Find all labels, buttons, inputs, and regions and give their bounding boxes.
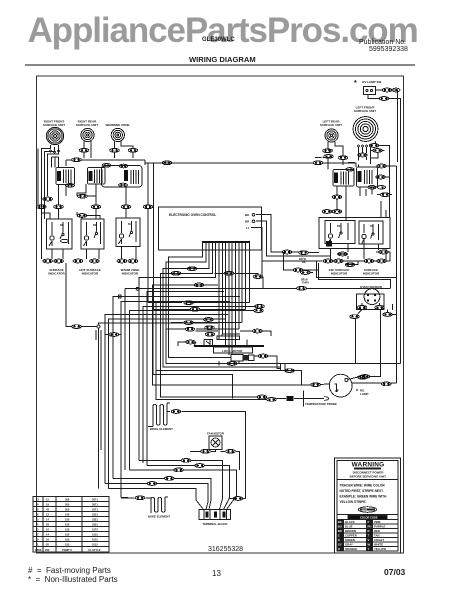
connector bbox=[43, 197, 53, 201]
svg-text:200: 200 bbox=[65, 503, 70, 507]
terminal block label bbox=[202, 522, 227, 526]
svg-text:BK: BK bbox=[338, 520, 342, 524]
svg-text:29: 29 bbox=[46, 523, 49, 527]
warning box bbox=[335, 458, 401, 553]
connector bbox=[311, 383, 321, 387]
diagram frame bbox=[37, 76, 404, 553]
left rear surface unit label bbox=[320, 120, 342, 128]
connector bbox=[381, 382, 391, 386]
warning title bbox=[352, 462, 385, 469]
svg-text:BK: BK bbox=[337, 225, 341, 228]
wire left bus L bends bbox=[99, 285, 311, 498]
connector bbox=[358, 375, 368, 379]
oven sensor enclosure bbox=[356, 294, 384, 310]
wire sensor horizontal bbox=[356, 101, 401, 364]
connector bbox=[109, 333, 119, 337]
svg-text:105: 105 bbox=[65, 538, 70, 542]
left rear surface switch bbox=[333, 168, 354, 186]
wire into indicator boxes bbox=[41, 209, 148, 219]
svg-text:BR: BR bbox=[245, 220, 250, 224]
connector bbox=[376, 175, 386, 179]
connector bbox=[332, 195, 342, 199]
connector bbox=[377, 259, 387, 263]
connector bbox=[143, 205, 153, 209]
svg-text:*: * bbox=[354, 80, 357, 87]
connector bbox=[360, 375, 370, 379]
svg-text:TERMINAL BLOCK: TERMINAL BLOCK bbox=[202, 522, 227, 526]
wire right indicator drops bbox=[262, 201, 397, 278]
connector bbox=[375, 306, 385, 310]
connector bbox=[357, 306, 367, 310]
svg-text:105: 105 bbox=[65, 543, 70, 547]
left front surface unit bbox=[353, 117, 378, 142]
svg-text:15: 15 bbox=[46, 498, 49, 502]
connector bbox=[147, 482, 157, 486]
connector bbox=[117, 259, 127, 263]
connector bbox=[322, 210, 332, 214]
svg-text:PURPLE: PURPLE bbox=[374, 525, 385, 529]
wire lamp sw lower bbox=[368, 95, 401, 161]
svg-text:16: 16 bbox=[46, 528, 49, 532]
svg-text:3231: 3231 bbox=[92, 513, 98, 517]
svg-text:BEFORE SERVICING UNIT.: BEFORE SERVICING UNIT. bbox=[350, 475, 387, 479]
svg-text:5: 5 bbox=[37, 518, 39, 522]
color code table bbox=[337, 515, 398, 552]
lock motor switch arm bbox=[204, 340, 247, 346]
svg-text:INDICATOR: INDICATOR bbox=[363, 272, 380, 276]
surface indicator label right bbox=[363, 268, 380, 276]
tracer wire example symbol bbox=[359, 507, 377, 513]
svg-text:150: 150 bbox=[65, 513, 70, 517]
connector bbox=[382, 88, 400, 92]
svg-text:WIRE: WIRE bbox=[35, 548, 42, 552]
connector bbox=[78, 194, 88, 198]
svg-text:1015: 1015 bbox=[92, 533, 98, 537]
svg-text:RED: RED bbox=[374, 529, 380, 533]
svg-text:BK: BK bbox=[302, 260, 306, 264]
br w thru label bbox=[301, 279, 309, 285]
wire upper mid horizontals bbox=[171, 257, 258, 276]
connector bbox=[297, 286, 307, 290]
svg-text:R: R bbox=[368, 529, 370, 533]
svg-text:12: 12 bbox=[36, 498, 39, 502]
svg-text:COPPER: COPPER bbox=[345, 534, 357, 538]
wire fan motor bbox=[190, 450, 239, 470]
oven lamp switch bbox=[364, 87, 376, 95]
connector bbox=[324, 155, 334, 159]
connector bbox=[121, 205, 131, 209]
connector bbox=[201, 449, 211, 453]
svg-text:GREEN: GREEN bbox=[345, 538, 355, 542]
connector bbox=[184, 301, 194, 305]
connector bbox=[204, 318, 214, 322]
wire color table text bbox=[35, 498, 101, 553]
svg-text:19: 19 bbox=[46, 503, 49, 507]
connector bbox=[162, 161, 172, 165]
svg-text:OV LAMP SW: OV LAMP SW bbox=[362, 80, 381, 84]
connector bbox=[195, 464, 205, 468]
connector bbox=[128, 259, 138, 263]
connector bbox=[379, 97, 389, 101]
title bbox=[189, 55, 256, 64]
svg-text:LI: LI bbox=[246, 226, 249, 230]
fan motor bbox=[209, 436, 222, 450]
svg-text:20: 20 bbox=[46, 543, 49, 547]
svg-text:PU: PU bbox=[368, 525, 372, 529]
svg-text:PINK: PINK bbox=[374, 520, 381, 524]
svg-text:YELLOW: YELLOW bbox=[374, 547, 386, 551]
surface switch 1 (right front) bbox=[56, 168, 75, 188]
junction bbox=[118, 295, 121, 298]
wire EOC right side BK bbox=[256, 215, 331, 282]
svg-text:BK: BK bbox=[60, 224, 64, 227]
connector bbox=[285, 369, 295, 373]
model no bbox=[202, 37, 235, 43]
svg-text:4: 4 bbox=[37, 523, 39, 527]
svg-text:6: 6 bbox=[37, 513, 39, 517]
svg-text:TAN: TAN bbox=[374, 534, 380, 538]
connector bbox=[255, 304, 265, 308]
warm zone indicator box bbox=[116, 218, 140, 247]
right surface indicator box bbox=[359, 221, 383, 244]
svg-text:1015: 1015 bbox=[92, 543, 98, 547]
svg-text:BLACK: BLACK bbox=[345, 520, 355, 524]
connector bbox=[252, 329, 262, 333]
warming zone element bbox=[111, 128, 124, 141]
lock motor bar bbox=[194, 345, 264, 347]
terminal block bbox=[199, 510, 231, 520]
connector bbox=[380, 193, 390, 197]
wire middle verticals to block bbox=[219, 330, 229, 365]
wire switch drops bbox=[59, 160, 154, 309]
wire LR unit drops bbox=[328, 142, 343, 170]
connector bbox=[164, 477, 174, 481]
svg-text:YELLOW STRIPE.: YELLOW STRIPE. bbox=[340, 500, 367, 504]
warning paragraph bbox=[340, 484, 388, 505]
oven lamp label bbox=[356, 389, 369, 397]
junction square bbox=[147, 205, 150, 208]
wire lamp sw to connector bbox=[376, 90, 398, 162]
svg-text:V: V bbox=[368, 538, 370, 542]
svg-text:43: 43 bbox=[46, 508, 49, 512]
connector bbox=[90, 259, 100, 263]
svg-text:LAMP: LAMP bbox=[360, 392, 369, 396]
svg-text:BLUE: BLUE bbox=[345, 525, 353, 529]
svg-text:BAKE ELEMENT: BAKE ELEMENT bbox=[148, 515, 170, 519]
wire bus to right boxes bbox=[315, 150, 355, 163]
svg-text:14: 14 bbox=[46, 518, 49, 522]
surface unit right front bbox=[46, 127, 63, 144]
broil element bbox=[153, 403, 167, 427]
warning subtitle bbox=[350, 471, 387, 479]
wire right edge taps bbox=[386, 166, 397, 177]
connector bbox=[73, 259, 83, 263]
wire long 288 bbox=[125, 282, 391, 470]
wire color table bbox=[33, 497, 109, 553]
footer left bbox=[28, 566, 111, 575]
svg-text:NOTED FIRST, STRIPE NEXT.: NOTED FIRST, STRIPE NEXT. bbox=[340, 489, 384, 493]
connector bbox=[377, 164, 387, 168]
connector bbox=[313, 161, 323, 165]
connector bbox=[79, 148, 89, 152]
connector bbox=[253, 275, 263, 279]
connector bbox=[171, 271, 181, 275]
fan motor label bbox=[207, 432, 224, 436]
svg-text:3071: 3071 bbox=[92, 503, 98, 507]
svg-text:SURFACE UNIT: SURFACE UNIT bbox=[320, 123, 342, 127]
svg-text:ORANGE: ORANGE bbox=[345, 547, 357, 551]
svg-text:BROIL ELEMENT: BROIL ELEMENT bbox=[150, 427, 173, 431]
warming zone label bbox=[106, 123, 130, 127]
connector bbox=[54, 259, 64, 263]
warning underline bbox=[354, 468, 381, 469]
surface switch 2 (right rear) bbox=[88, 168, 106, 185]
svg-text:EXAMPLE: GREEN WIRE WITH: EXAMPLE: GREEN WIRE WITH bbox=[340, 495, 388, 499]
connector bbox=[338, 156, 348, 160]
connector bbox=[77, 214, 87, 218]
connector bbox=[332, 210, 342, 214]
connector bbox=[185, 327, 195, 331]
broil element label bbox=[150, 427, 173, 431]
svg-text:UL STYLE: UL STYLE bbox=[88, 548, 101, 552]
connector bbox=[72, 158, 82, 162]
svg-text:G: G bbox=[338, 538, 340, 542]
svg-text:3071: 3071 bbox=[92, 498, 98, 502]
connector bbox=[254, 309, 264, 313]
surface indicator label bbox=[48, 268, 65, 276]
wire LF unit drops bbox=[359, 141, 390, 218]
connector bbox=[358, 153, 368, 157]
connector bbox=[227, 362, 237, 366]
svg-text:*: * bbox=[356, 389, 359, 395]
connector bbox=[205, 332, 215, 336]
svg-text:200: 200 bbox=[65, 508, 70, 512]
connector bbox=[181, 459, 191, 463]
svg-text:ELECTRONIC OVEN CONTROL: ELECTRONIC OVEN CONTROL bbox=[169, 213, 216, 217]
connector bbox=[190, 307, 200, 311]
connector bbox=[54, 205, 64, 209]
EOC terminals BK BR LI bbox=[245, 213, 250, 230]
surface indicator box bbox=[47, 219, 73, 249]
svg-text:150: 150 bbox=[65, 518, 70, 522]
svg-text:INDICATOR: INDICATOR bbox=[82, 272, 99, 276]
svg-text:T: T bbox=[368, 534, 370, 538]
junction bbox=[136, 287, 139, 290]
svg-text:P: P bbox=[368, 520, 370, 524]
connector bbox=[301, 271, 311, 275]
left front surface switch bbox=[357, 167, 386, 189]
wire indicator box drops bbox=[52, 247, 136, 260]
svg-text:300: 300 bbox=[65, 498, 70, 502]
connector bbox=[334, 259, 344, 263]
oven light bbox=[329, 374, 352, 397]
svg-text:1: 1 bbox=[37, 543, 39, 547]
svg-text:THRU: THRU bbox=[302, 281, 309, 284]
svg-text:BROWN: BROWN bbox=[345, 529, 356, 533]
connector bbox=[373, 149, 383, 153]
connector bbox=[205, 326, 215, 330]
connector bbox=[364, 259, 374, 263]
svg-text:SURFACE UNIT: SURFACE UNIT bbox=[354, 109, 376, 113]
connector row above indicator boxes bbox=[37, 205, 47, 209]
svg-text:9: 9 bbox=[37, 503, 39, 507]
wire parallel return bbox=[319, 263, 391, 288]
bk label small bbox=[299, 257, 306, 264]
svg-text:8: 8 bbox=[37, 508, 39, 512]
connector bbox=[233, 497, 243, 501]
connector bbox=[282, 250, 292, 254]
connector bbox=[128, 148, 138, 152]
connector bbox=[91, 205, 101, 209]
wire bus mid drops bbox=[105, 250, 250, 356]
surface unit right rear bbox=[81, 128, 94, 141]
connector bbox=[293, 268, 303, 272]
svg-text:3173: 3173 bbox=[92, 528, 98, 532]
junction node bbox=[97, 325, 100, 328]
svg-text:BK: BK bbox=[93, 224, 97, 227]
svg-text:BK: BK bbox=[245, 213, 250, 217]
oven sensor bbox=[364, 289, 380, 305]
svg-text:WARMING ZONE: WARMING ZONE bbox=[106, 123, 130, 127]
oven lamp switch label bbox=[354, 80, 381, 87]
connector row below indicator boxes bbox=[43, 259, 53, 263]
connector bbox=[174, 468, 184, 472]
svg-text:9: 9 bbox=[37, 538, 39, 542]
surface switch 3 (warming zone) bbox=[102, 164, 143, 188]
svg-text:3271: 3271 bbox=[92, 508, 98, 512]
wire mid horizontals with connectors bbox=[148, 303, 250, 340]
lock motor box bbox=[214, 347, 253, 353]
svg-text:W: W bbox=[368, 543, 371, 547]
svg-text:BU: BU bbox=[370, 225, 374, 228]
surface unit right front label bbox=[43, 120, 65, 128]
EOC terminal strip comb bbox=[202, 241, 250, 250]
lock motor lower boxes bbox=[231, 354, 254, 361]
4sf surface indicator label bbox=[329, 268, 350, 276]
warm zone indicator label bbox=[121, 268, 140, 276]
wire surface indicator feed bbox=[66, 263, 101, 488]
connector bbox=[379, 250, 389, 254]
svg-text:Y: Y bbox=[368, 547, 370, 551]
connector bbox=[323, 149, 333, 153]
connector bbox=[186, 340, 196, 344]
connector bbox=[267, 398, 277, 402]
connector bbox=[369, 144, 379, 148]
temperature probe bbox=[277, 391, 329, 407]
wire long feed bbox=[66, 160, 145, 166]
connector bbox=[135, 496, 145, 500]
left front surface unit label bbox=[354, 106, 376, 114]
wire RR unit drops bbox=[84, 141, 91, 158]
dark component bbox=[326, 241, 332, 247]
wire br tap bbox=[284, 252, 319, 273]
connector bbox=[171, 410, 181, 414]
svg-text:16: 16 bbox=[46, 538, 49, 542]
hot surface indicator label bbox=[79, 268, 101, 276]
wire oven light bbox=[152, 278, 396, 385]
connector bbox=[323, 259, 333, 263]
svg-text:150: 150 bbox=[65, 528, 70, 532]
connector bbox=[72, 325, 82, 329]
svg-text:1015: 1015 bbox=[92, 538, 98, 542]
svg-text:12: 12 bbox=[46, 513, 49, 517]
svg-text:GRAY: GRAY bbox=[345, 543, 353, 547]
svg-text:BU: BU bbox=[128, 223, 132, 226]
wire broil bbox=[148, 403, 245, 499]
watermark bbox=[28, 13, 418, 48]
bake element label bbox=[148, 515, 170, 519]
connector bbox=[110, 148, 120, 152]
connector bbox=[258, 354, 268, 358]
hot surface indicator box bbox=[81, 219, 104, 249]
wire EOC comb drops bending left bbox=[139, 250, 401, 461]
svg-text:GY: GY bbox=[338, 543, 342, 547]
wire lock motor bbox=[178, 331, 281, 368]
connector bbox=[383, 313, 393, 317]
wire staircase to terminal block bbox=[105, 460, 237, 509]
svg-text:105: 105 bbox=[65, 533, 70, 537]
connector bbox=[226, 449, 236, 453]
svg-text:3351: 3351 bbox=[92, 523, 98, 527]
svg-text:2: 2 bbox=[37, 533, 39, 537]
wire WZ drops bbox=[115, 141, 134, 158]
connector box bbox=[281, 364, 286, 371]
title underline bbox=[25, 64, 415, 66]
connector bbox=[194, 283, 204, 287]
color code table text bbox=[360, 516, 378, 520]
svg-text:SURFACE UNIT: SURFACE UNIT bbox=[76, 123, 98, 127]
svg-text:316255328: 316255328 bbox=[208, 546, 243, 553]
wire bake bbox=[121, 497, 168, 499]
publication no bbox=[359, 39, 406, 46]
svg-text:TEMPERATURE PROBE: TEMPERATURE PROBE bbox=[305, 402, 337, 406]
connector bbox=[184, 321, 194, 325]
right front unit terminal pins bbox=[50, 150, 60, 153]
svg-text:VIOLET: VIOLET bbox=[374, 538, 384, 542]
wire terminal block right bbox=[229, 498, 246, 500]
connector bbox=[187, 267, 197, 271]
wire sensor loop bbox=[356, 315, 397, 321]
wire right switch drops bbox=[337, 186, 392, 220]
wire right box drops to sensor bbox=[348, 166, 397, 278]
svg-text:150: 150 bbox=[65, 523, 70, 527]
svg-text:G/Y: G/Y bbox=[362, 508, 367, 512]
svg-text:TEMP°C: TEMP°C bbox=[62, 548, 72, 552]
right indicator outer box bbox=[319, 218, 390, 249]
wire cross bbox=[77, 195, 96, 197]
long horizontal wire to right section bbox=[145, 163, 356, 167]
electronic oven control box bbox=[159, 207, 262, 250]
svg-text:COLOR CODE: COLOR CODE bbox=[360, 516, 378, 520]
left rear surface unit bbox=[325, 129, 338, 142]
svg-text:WHITE: WHITE bbox=[374, 543, 383, 547]
connector bbox=[257, 395, 267, 399]
svg-text:INDICATOR: INDICATOR bbox=[331, 272, 348, 276]
svg-text:14: 14 bbox=[46, 533, 49, 537]
left front unit terminal pins bbox=[358, 145, 372, 147]
connector bbox=[299, 251, 309, 255]
svg-text:#90: #90 bbox=[45, 548, 50, 552]
svg-text:SURFACE UNIT: SURFACE UNIT bbox=[43, 123, 65, 127]
left surface indicator box bbox=[325, 221, 355, 245]
wire left feed bbox=[38, 145, 58, 259]
svg-text:FAN MOTOR: FAN MOTOR bbox=[207, 432, 224, 436]
svg-text:INDICATOR: INDICATOR bbox=[122, 272, 139, 276]
connector bbox=[345, 263, 355, 267]
connector bbox=[224, 271, 234, 275]
svg-text:INDICATOR: INDICATOR bbox=[48, 272, 65, 276]
connector bbox=[350, 315, 360, 319]
